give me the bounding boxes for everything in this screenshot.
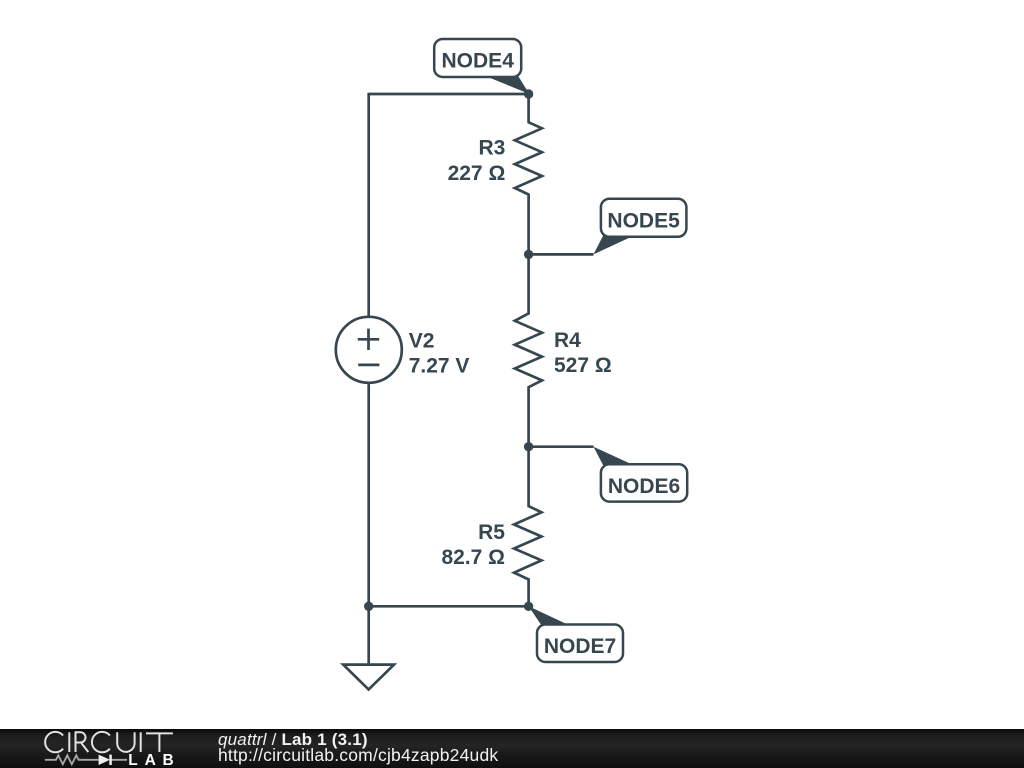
svg-text:227 Ω: 227 Ω (448, 162, 506, 185)
svg-text:7.27 V: 7.27 V (409, 354, 470, 377)
node label callout NODE5 (594, 199, 687, 255)
letter I (140, 732, 142, 752)
node NODE4 junction dot (524, 89, 533, 98)
svg-text:LAB: LAB (128, 752, 180, 768)
letter C (92, 732, 110, 752)
wire stub from NODE6 junction to label tail (529, 445, 594, 448)
resistor R4 (with leads from NODE5 to NODE6) (515, 254, 542, 446)
svg-text:R4: R4 (554, 329, 581, 352)
svg-text:NODE5: NODE5 (607, 210, 680, 233)
resistor R4 value label "R4 / 527 Ω" (554, 329, 612, 377)
node label callout NODE7 (529, 606, 623, 662)
resistor R5 (with leads from NODE6 to NODE7) (514, 447, 542, 607)
node junction dot at bottom rail / ground (364, 602, 373, 611)
svg-text:NODE7: NODE7 (544, 635, 616, 658)
ground (343, 606, 394, 689)
wire bottom rail from ground junction to NODE7 (369, 605, 529, 608)
resistor R5 value label "R5 / 82.7 Ω" (441, 521, 505, 569)
svg-text:R5: R5 (478, 521, 505, 544)
letter I (68, 732, 70, 752)
letter R (76, 732, 89, 752)
resistor-diode glyph (45, 755, 127, 764)
resistor R3 value label "R3 / 227 Ω" (448, 137, 506, 186)
svg-text:NODE4: NODE4 (442, 50, 515, 73)
footer title "quattrl / Lab 1 (3.1)" (218, 731, 368, 748)
svg-text:NODE6: NODE6 (608, 475, 680, 498)
wire left rail lower (V2 minus terminal down to bottom rail) (367, 383, 370, 607)
node NODE5 junction dot (524, 250, 533, 259)
wire left rail upper (top rail down to V2 plus terminal) (367, 93, 370, 317)
letter C (45, 732, 63, 752)
letter U (117, 732, 134, 752)
node NODE7 junction dot (524, 602, 533, 611)
wire top rail from V2 branch to NODE4 (369, 93, 529, 96)
voltage source V2 (336, 317, 402, 383)
wire stub from NODE5 junction to label tail (529, 253, 594, 256)
svg-text:V2: V2 (409, 329, 435, 352)
node label callout NODE6 (594, 447, 688, 502)
footer bar (0, 729, 1024, 768)
svg-text:R3: R3 (478, 137, 505, 160)
CircuitLab logo (0, 727, 210, 768)
svg-text:82.7 Ω: 82.7 Ω (441, 546, 505, 569)
node label callout NODE4 (434, 39, 529, 94)
svg-text:527 Ω: 527 Ω (554, 354, 612, 377)
footer URL (218, 747, 498, 765)
resistor R3 (with leads from NODE4 to NODE5) (515, 94, 542, 254)
letter T (146, 733, 173, 752)
node NODE6 junction dot (524, 442, 533, 451)
voltage source V2 value label "V2 / 7.27 V" (409, 329, 470, 377)
